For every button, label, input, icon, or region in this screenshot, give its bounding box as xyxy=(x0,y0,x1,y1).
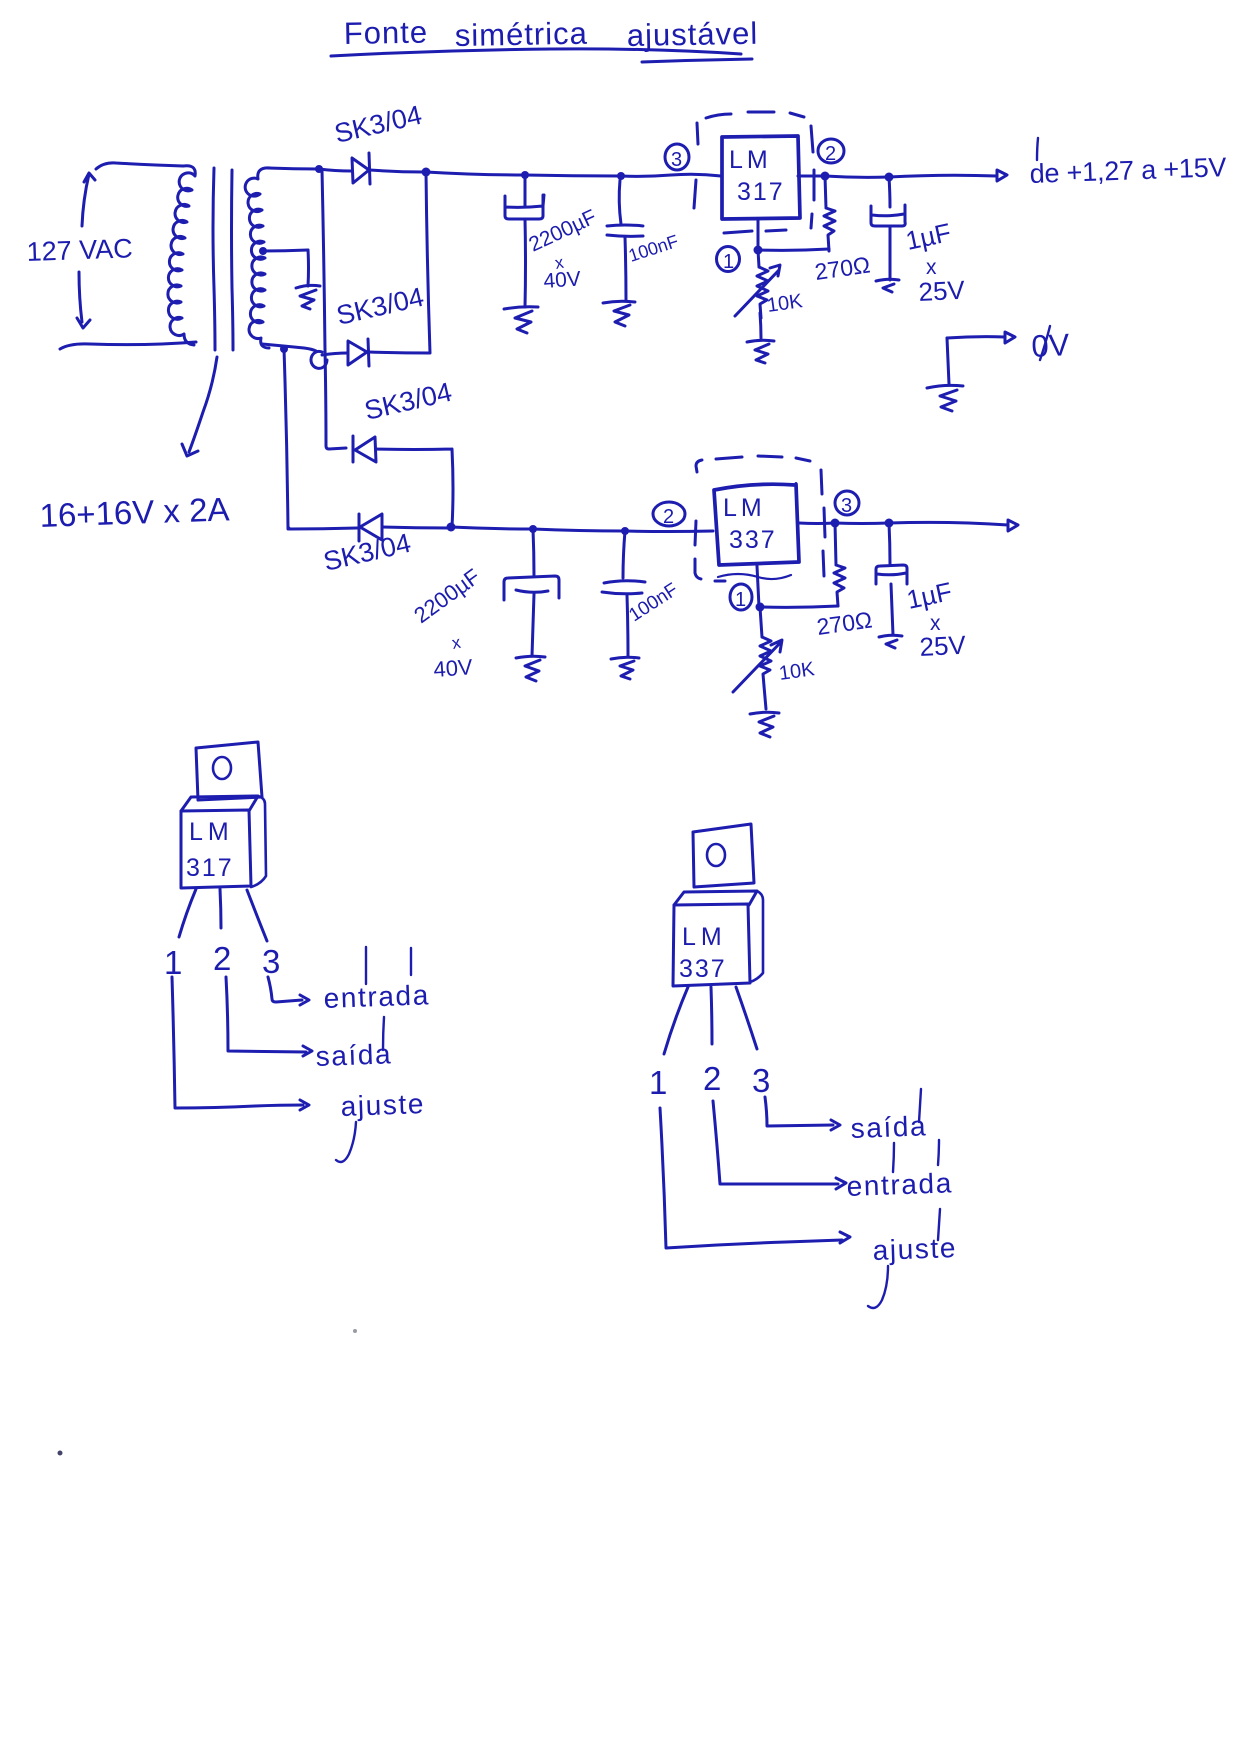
U2 dashed box xyxy=(695,456,825,581)
svg-text:SK3/04: SK3/04 xyxy=(362,377,455,426)
op-amp U2 LM337 box xyxy=(714,484,799,565)
label 270 ohm R1 xyxy=(813,251,872,284)
wire U1 pin1 down xyxy=(757,219,760,250)
flourish d of saida U2 xyxy=(919,1089,921,1122)
node center tap xyxy=(259,247,267,255)
capacitor C3 1uF lead xyxy=(889,177,890,207)
diode D1 SK3/04 xyxy=(352,153,370,184)
svg-text:337: 337 xyxy=(729,526,777,554)
svg-text:saída: saída xyxy=(315,1038,393,1072)
flourish j of ajuste xyxy=(336,1122,356,1162)
stray pen dot 2 xyxy=(58,1451,63,1456)
svg-text:1µF: 1µF xyxy=(903,217,954,256)
capacitor C4 2200uF lead top xyxy=(533,529,534,576)
svg-text:ajuste: ajuste xyxy=(340,1088,425,1122)
U2 package leg 3 xyxy=(736,987,757,1049)
label 10K P1 xyxy=(766,290,805,317)
wire vertical secondary-top to D3 xyxy=(322,170,346,449)
potentiometer P2 arrow xyxy=(733,640,782,692)
svg-text:100nF: 100nF xyxy=(625,579,682,626)
svg-text:2200µF: 2200µF xyxy=(525,205,600,256)
wire U2 pin1 down xyxy=(757,566,759,607)
node secondary bottom junction xyxy=(280,345,288,353)
U2 package tab hole xyxy=(707,844,725,866)
capacitor C6 1uF lead xyxy=(889,523,890,564)
capacitor C1 lead bottom xyxy=(524,219,528,307)
U1 package leg 2 xyxy=(220,889,221,928)
svg-text:1: 1 xyxy=(164,944,182,981)
ground C4 xyxy=(516,656,545,681)
output arrow 0V xyxy=(1005,332,1015,343)
potentiometer P1 10K xyxy=(757,250,768,318)
capacitor C2 lead bottom xyxy=(625,237,626,300)
U1 package leg 1 xyxy=(179,889,196,937)
wire U2 output to rail xyxy=(799,522,835,526)
node U2 output xyxy=(831,519,840,528)
label saida U1 xyxy=(315,1038,393,1072)
U2 package leg 2 xyxy=(711,987,712,1044)
U2 pin number 3 xyxy=(752,1062,770,1099)
svg-text:SK3/04: SK3/04 xyxy=(332,100,425,149)
U1 pin1 line to ajuste xyxy=(172,977,309,1110)
ground center tap xyxy=(296,285,320,309)
flourish on 0 of 0V xyxy=(1040,326,1050,360)
node pin1 junction xyxy=(754,246,763,255)
U1 pin number 2 xyxy=(213,940,231,977)
capacitor C1 2200uF lead top xyxy=(524,175,527,207)
svg-text:2: 2 xyxy=(663,506,674,528)
node pin2 circled label xyxy=(818,139,844,163)
svg-text:40V: 40V xyxy=(543,267,582,293)
wire top rail C2 to LM317 xyxy=(621,174,721,176)
node pin3 circled label U1 xyxy=(665,144,689,170)
svg-text:1µF: 1µF xyxy=(904,576,955,615)
title underline 2 xyxy=(642,59,752,62)
U2 pin3 line to saida xyxy=(765,1097,840,1130)
label 0V xyxy=(1031,327,1071,364)
U2 package body right face xyxy=(750,891,763,982)
output arrow positive xyxy=(997,170,1007,181)
svg-text:SK3/04: SK3/04 xyxy=(321,528,414,577)
node C4 top xyxy=(529,525,537,533)
stray pen dot 1 xyxy=(353,1329,357,1333)
node pin1 circled label U2 xyxy=(730,584,752,610)
node pin1 circled label xyxy=(717,247,740,272)
U1 label LM 317 xyxy=(729,146,785,206)
svg-text:3: 3 xyxy=(262,943,280,980)
node C3 top xyxy=(885,173,894,182)
transformer T1 core line 2 xyxy=(232,170,234,350)
label 100nF C5 xyxy=(625,579,682,626)
ground 0V xyxy=(927,385,963,411)
potentiometer P1 arrow xyxy=(735,265,780,316)
wire C3 to output arrow xyxy=(889,175,997,177)
U2 package leg 1 xyxy=(664,987,688,1054)
wire top rail C1 to C2 xyxy=(525,175,621,176)
label SK3/04 D2 xyxy=(334,282,427,331)
wire secondary bottom down left side xyxy=(284,349,289,529)
transformer T1 primary bottom wire xyxy=(60,342,196,349)
capacitor C5 lead bottom xyxy=(627,595,628,656)
label saida U2 xyxy=(850,1110,928,1144)
capacitor C6 lead bottom xyxy=(891,584,893,635)
wire P2 to ground xyxy=(764,686,766,709)
transformer T1 primary top wire xyxy=(96,163,183,169)
U1 dashed box xyxy=(694,112,814,233)
label 2200uF C4 xyxy=(409,564,484,682)
label 100nF C2 xyxy=(626,231,681,266)
wire output rail to C6 xyxy=(835,522,889,526)
wire 0V to ground xyxy=(947,338,949,384)
svg-text:25V: 25V xyxy=(918,275,966,307)
label output voltage xyxy=(1029,152,1227,189)
svg-text:10K: 10K xyxy=(766,290,805,317)
flourish j of ajuste U2 xyxy=(868,1209,940,1308)
svg-text:40V: 40V xyxy=(433,654,474,682)
label 1uF x 25V C3 xyxy=(903,217,966,307)
capacitor C2 100nF lead top xyxy=(619,180,621,224)
U1 package label LM 317 xyxy=(186,818,234,882)
ground C5 xyxy=(611,657,639,679)
op-amp U1 LM317 box xyxy=(722,136,800,219)
U1 pin number 1 xyxy=(164,944,182,981)
svg-text:saída: saída xyxy=(850,1110,928,1144)
wire D2 to diode xyxy=(322,353,348,355)
label entrada U1 xyxy=(323,979,430,1014)
node pin3 circled label U2 xyxy=(835,491,859,515)
U2 pin1 line to ajuste xyxy=(660,1108,850,1248)
U1 pin2 line to saida xyxy=(226,977,312,1056)
svg-text:3: 3 xyxy=(752,1062,770,1099)
U1 package body front face xyxy=(181,810,251,888)
label 16+16V x 2A xyxy=(39,490,230,534)
node bottom rail D3 join xyxy=(447,523,456,532)
transformer T1 secondary bottom wire xyxy=(262,344,316,351)
label ajuste U2 xyxy=(872,1232,957,1266)
capacitor C5 100nF lead top xyxy=(623,531,625,578)
title underline xyxy=(331,49,741,56)
arrow to 16+16V label xyxy=(182,357,217,456)
wire 0V output xyxy=(947,337,1005,338)
svg-text:ajustável: ajustável xyxy=(627,16,759,53)
svg-text:ajuste: ajuste xyxy=(872,1232,957,1266)
transformer T1 core line 1 xyxy=(213,168,215,350)
wire D3 anode right and down to bottom rail xyxy=(376,449,453,527)
capacitor C2 100nF plates xyxy=(607,225,643,236)
svg-text:127 VAC: 127 VAC xyxy=(26,233,133,267)
svg-text:entrada: entrada xyxy=(846,1167,953,1202)
U1 package leg 3 xyxy=(247,890,267,941)
capacitor C5 100nF plates xyxy=(602,581,645,594)
U2 pin2 line to entrada xyxy=(713,1101,846,1189)
wire D4 anode to node xyxy=(382,527,450,528)
label entrada U2 xyxy=(846,1167,953,1202)
transformer T1 secondary top wire xyxy=(268,168,319,169)
svg-text:LM: LM xyxy=(723,494,766,522)
svg-text:25V: 25V xyxy=(919,630,967,662)
svg-text:16+16V x 2A: 16+16V x 2A xyxy=(39,490,230,534)
node C6 top xyxy=(885,519,894,528)
output arrow negative xyxy=(1008,520,1018,531)
squiggle under U2 box xyxy=(718,574,791,579)
svg-text:337: 337 xyxy=(679,955,727,983)
capacitor C3 1uF electrolytic symbol xyxy=(871,205,905,226)
U1 pin number 3 xyxy=(262,943,280,980)
wire C6 to output arrow xyxy=(889,522,1008,525)
diode D2 SK3/04 xyxy=(348,339,369,366)
svg-text:270Ω: 270Ω xyxy=(815,606,874,639)
wire U1 output to rail xyxy=(798,175,825,178)
flourish t of entrada U2 xyxy=(893,1140,939,1172)
wire D1 to node xyxy=(370,170,424,172)
transformer T1 center tap wire xyxy=(262,250,308,251)
label 1uF x 25V C6 xyxy=(904,576,967,662)
capacitor C4 2200uF electrolytic symbol (inverted cup) xyxy=(504,576,559,600)
wire R2 to pin1 node xyxy=(760,606,838,607)
ground C3 xyxy=(876,279,899,292)
svg-text:317: 317 xyxy=(737,178,785,206)
capacitor C4 lead bottom xyxy=(532,594,534,656)
resistor R1 270 ohm xyxy=(824,176,835,251)
node C2 top xyxy=(617,172,625,180)
wire P1 to ground xyxy=(760,313,761,338)
wire bottom rail node to C4 xyxy=(451,527,533,529)
wire bottom rail C5 to LM337 xyxy=(625,530,713,534)
U1 package body right face xyxy=(251,796,266,887)
diode D3 SK3/04 (points left) xyxy=(353,436,376,462)
node U1 output xyxy=(821,172,830,181)
label 2200uF C1 xyxy=(525,205,600,293)
label 127 VAC xyxy=(26,233,133,267)
svg-text:10K: 10K xyxy=(778,658,817,685)
node C5 top xyxy=(621,527,629,535)
svg-text:2: 2 xyxy=(213,940,231,977)
svg-text:entrada: entrada xyxy=(323,979,430,1014)
potentiometer P2 10K xyxy=(760,607,771,686)
resistor R2 270 ohm xyxy=(834,523,845,606)
capacitor C6 1uF electrolytic symbol xyxy=(876,565,907,584)
wire bottom rail C4 to C5 xyxy=(533,529,625,531)
svg-text:1: 1 xyxy=(723,251,734,273)
U2 pin number 2 xyxy=(703,1060,721,1097)
svg-text:LM: LM xyxy=(729,146,772,174)
wire top rail D1node to C1 xyxy=(426,172,525,175)
node top rail D2 join xyxy=(422,168,431,177)
label 10K P2 xyxy=(778,658,817,685)
svg-text:2: 2 xyxy=(825,143,836,165)
node pin1 junction U2 xyxy=(756,603,765,612)
wire R1 to pin1 node xyxy=(758,249,829,250)
U2 package body top face xyxy=(674,891,757,905)
svg-text:de +1,27 a +15V: de +1,27 a +15V xyxy=(1029,152,1227,189)
svg-text:2200µF: 2200µF xyxy=(409,564,484,628)
wire center tap down xyxy=(307,250,311,286)
label SK3/04 D3 xyxy=(362,377,455,426)
svg-text:x: x xyxy=(450,633,462,653)
svg-text:2: 2 xyxy=(703,1060,721,1097)
U2 package label LM 337 xyxy=(679,923,727,983)
U1 package tab xyxy=(196,742,262,800)
U2 label LM 337 xyxy=(723,494,777,554)
U1 package body top face xyxy=(181,796,258,811)
ground P1 xyxy=(747,340,774,363)
capacitor C3 lead bottom xyxy=(889,227,892,280)
svg-text:270Ω: 270Ω xyxy=(813,251,872,284)
svg-text:SK3/04: SK3/04 xyxy=(334,282,427,331)
wire output rail to C3 xyxy=(825,176,889,177)
transformer T1 primary bottom-left AC lead xyxy=(77,272,90,328)
title text "Fonte simétrica ajustável" xyxy=(344,15,759,53)
wire D2 cathode to vertical up to top rail xyxy=(369,172,430,353)
U2 pin number 1 xyxy=(649,1064,667,1101)
node C1 top xyxy=(521,171,529,179)
ground C6 xyxy=(879,635,902,648)
U1 pin3 line to entrada xyxy=(268,977,309,1005)
transformer T1 primary winding xyxy=(168,166,195,345)
ground P2 xyxy=(750,712,779,737)
label 270 ohm R2 xyxy=(815,606,874,639)
svg-text:LM: LM xyxy=(189,818,234,846)
svg-text:3: 3 xyxy=(671,149,682,171)
wire bottom-left to D4 xyxy=(289,528,357,529)
svg-text:1: 1 xyxy=(649,1064,667,1101)
capacitor C1 2200uF electrolytic symbol xyxy=(505,195,544,219)
flourish t of entrada xyxy=(366,947,411,984)
node pin2 circled label U2 xyxy=(653,502,685,526)
ground C1 xyxy=(504,307,538,333)
svg-text:Fonte: Fonte xyxy=(344,15,429,51)
svg-text:3: 3 xyxy=(841,495,852,517)
transformer T1 primary top-left AC arrow xyxy=(82,173,95,226)
node secondary top junction xyxy=(315,165,323,173)
label ajuste U1 xyxy=(340,1088,425,1122)
svg-text:LM: LM xyxy=(682,923,727,951)
flourish on d of de xyxy=(1037,138,1038,160)
svg-text:1: 1 xyxy=(735,589,746,611)
label SK3/04 D4 xyxy=(321,528,414,577)
wire secondary bottom cusp to D2 xyxy=(311,351,327,368)
ground C2 xyxy=(603,301,635,326)
diode D4 SK3/04 (points left) xyxy=(359,514,382,541)
label SK3/04 D1 xyxy=(332,100,425,149)
U2 package tab xyxy=(693,824,754,887)
U2 package body front face xyxy=(673,904,750,986)
flourish d of saida xyxy=(383,1017,384,1050)
transformer T1 secondary winding xyxy=(245,168,270,348)
U1 package tab hole xyxy=(213,757,231,779)
svg-text:317: 317 xyxy=(186,854,234,882)
wire secondary top to D1 xyxy=(319,169,351,171)
svg-text:0V: 0V xyxy=(1031,327,1071,364)
